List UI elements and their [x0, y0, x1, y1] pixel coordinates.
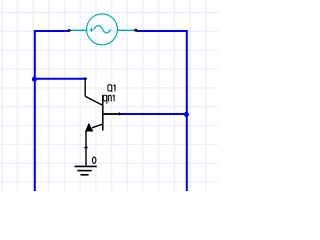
AC source V1 circle	[87, 14, 118, 45]
label Q1	[108, 85, 115, 92]
ground bar 3	[81, 174, 89, 176]
terminal pin dot emitter	[84, 146, 88, 149]
transistor Q1: base lead	[104, 113, 120, 115]
node junction dot left	[32, 77, 37, 82]
terminal pin dot right of source	[134, 28, 138, 32]
AC source left lead	[70, 29, 88, 31]
node junction dot right	[184, 112, 189, 117]
label qn1	[103, 95, 114, 104]
wire: top-left L (top horizontal + left vertical rail)	[35, 31, 69, 191]
transistor Q1: collector vertical lead	[84, 79, 86, 97]
transistor Q1: collector diagonal	[85, 96, 102, 105]
terminal pin dot base	[117, 112, 121, 115]
terminal pin dot collector	[83, 77, 87, 80]
AC source right lead	[117, 29, 135, 31]
terminal pin dot left of source	[67, 29, 71, 33]
wire: collector horizontal	[35, 78, 85, 80]
ground node label 0	[93, 157, 96, 164]
AC source sine wave	[94, 26, 111, 33]
ground bar 1	[75, 165, 97, 167]
transistor Q1: emitter diagonal	[92, 124, 103, 128]
transistor Q1: base bar	[102, 95, 104, 131]
wire: top-right L (top horizontal + right vertical rail)	[137, 31, 187, 191]
AC source plus sign	[90, 28, 94, 32]
transistor Q1: emitter vertical lead	[85, 131, 87, 166]
wire: base horizontal	[120, 113, 187, 115]
ground bar 2	[77, 170, 92, 172]
transistor Q1: emitter arrow	[85, 123, 93, 132]
